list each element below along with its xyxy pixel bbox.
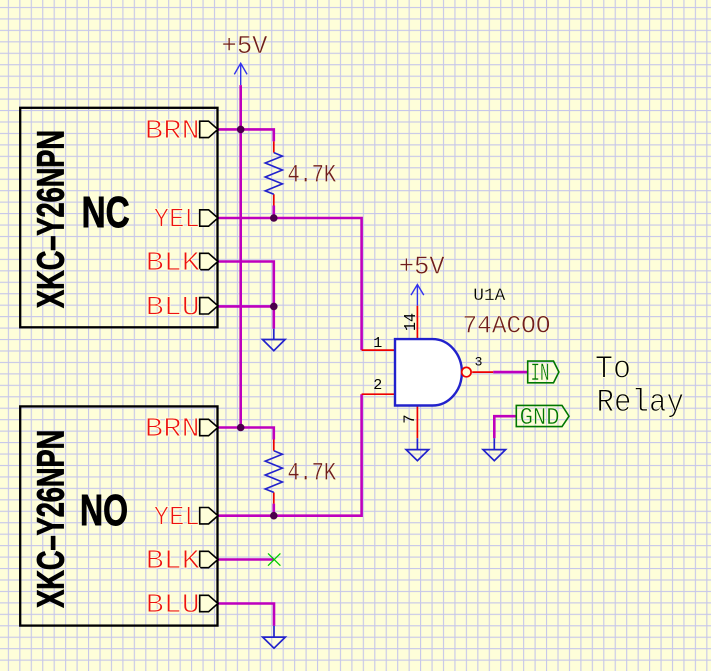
- junction at +5V rail / BRN NC: [237, 126, 245, 134]
- svg-text:U1A: U1A: [473, 286, 505, 306]
- wire BLU NC to ground: [218, 306, 274, 328]
- resistor R2 4.7K (NO pull-up) leads: [273, 440, 275, 504]
- wire +5V rail vertical x=240.7: [239, 85, 242, 427]
- power symbol +5V at gate pin 14: [411, 285, 424, 306]
- wire BLK NO stub to no-connect: [218, 558, 274, 561]
- ground under BLU NC: [263, 329, 286, 351]
- svg-text:NO: NO: [80, 486, 128, 535]
- wire BRN NC pin to resistor top corner: [218, 129, 274, 141]
- sensor U? XKC-Y26NPN (NC) body: [20, 108, 217, 327]
- pin BLU (NC) flag: [200, 298, 218, 314]
- svg-text:BRN: BRN: [145, 415, 200, 445]
- pin YEL (NC) flag: [200, 210, 218, 226]
- svg-text:BLK: BLK: [146, 249, 201, 279]
- wire YEL NO to gate input 2: [218, 394, 362, 516]
- wire resistor R1 bottom to YEL NC net: [272, 206, 275, 219]
- pin BLU (NO) flag: [200, 595, 218, 611]
- global label GND: [516, 405, 569, 426]
- wire gate output to IN label: [493, 371, 528, 374]
- junction at resistor R2 / YEL NO: [270, 512, 278, 520]
- power symbol +5V top rail: [234, 63, 247, 85]
- svg-text:BRN: BRN: [145, 117, 200, 147]
- resistor R1 zigzag body: [265, 153, 282, 195]
- svg-text:GND: GND: [520, 405, 560, 432]
- svg-text:2: 2: [373, 377, 382, 394]
- resistor R1 4.7K (NC pull-up) leads: [273, 141, 275, 205]
- gate U1A output inversion bubble: [462, 367, 471, 376]
- no-connect X at BLK NO: [268, 553, 280, 565]
- pin BLK (NO) flag: [200, 551, 218, 567]
- ground under GND label wire: [483, 438, 506, 460]
- svg-text:NC: NC: [82, 188, 130, 237]
- svg-text:XKC–Y26NPN: XKC–Y26NPN: [31, 130, 73, 308]
- pin BRN (NC) flag: [200, 121, 218, 137]
- resistor R2 zigzag body: [265, 451, 282, 493]
- pin YEL (NO) flag: [200, 508, 218, 524]
- svg-text:To: To: [595, 351, 631, 388]
- svg-text:4.7K: 4.7K: [288, 161, 337, 190]
- junction at resistor R1 / YEL NC: [270, 214, 278, 222]
- svg-text:+5V: +5V: [399, 251, 445, 281]
- wire resistor R2 bottom to YEL NO net: [272, 504, 275, 516]
- svg-text:YEL: YEL: [154, 503, 200, 533]
- svg-text:Relay: Relay: [597, 384, 685, 421]
- wire BRN NO pin to resistor top corner: [218, 428, 274, 440]
- svg-text:+5V: +5V: [222, 31, 268, 61]
- svg-text:IN: IN: [531, 359, 550, 388]
- global label IN: [528, 361, 559, 383]
- ground under BLU NO: [263, 626, 286, 648]
- svg-text:1: 1: [373, 335, 382, 352]
- op-amp/gate U1A pin leads (1,2,3,14,7) red: [362, 306, 494, 439]
- svg-text:XKC–Y26NPN: XKC–Y26NPN: [31, 430, 73, 608]
- svg-text:14: 14: [402, 313, 421, 331]
- junction at +5V rail / BRN NO: [237, 424, 245, 432]
- gate U1A NAND body: [395, 339, 462, 405]
- junction at BLK-BLU NC: [270, 303, 278, 311]
- pin BLK (NC) flag: [200, 253, 218, 269]
- svg-text:4.7K: 4.7K: [288, 459, 337, 488]
- wire GND label to ground: [494, 416, 516, 438]
- wire BLU NO to ground: [218, 604, 274, 626]
- sensor XKC-Y26NPN (NO) body: [20, 406, 217, 625]
- wire BLK NC down to BLU junction: [218, 262, 274, 307]
- svg-text:BLU: BLU: [146, 293, 200, 323]
- svg-text:YEL: YEL: [154, 206, 200, 236]
- svg-text:BLK: BLK: [146, 547, 201, 577]
- svg-text:7: 7: [401, 414, 419, 423]
- wire YEL NC to gate input 1: [218, 218, 362, 350]
- svg-text:74ACOO: 74ACOO: [463, 312, 551, 341]
- pin BRN (NO) flag: [200, 419, 218, 435]
- svg-text:BLU: BLU: [146, 591, 200, 621]
- svg-text:3: 3: [475, 354, 483, 369]
- ground under gate pin 7: [406, 438, 429, 460]
